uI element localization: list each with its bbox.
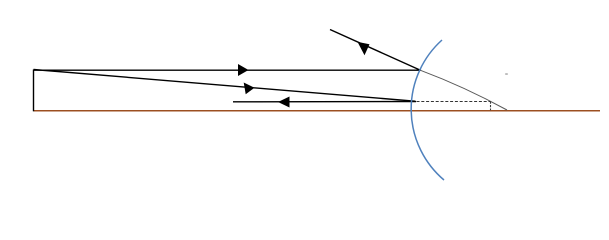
- object (vertical line): [33, 70, 35, 112]
- incident ray 2 (toward focal point): [34, 70, 416, 102]
- incident ray 1 (parallel ray): [34, 69, 421, 71]
- reflected ray 2 (parallel, leftward): [233, 101, 416, 103]
- optical axis: [34, 110, 601, 112]
- arrowhead on incident ray 2: [244, 83, 255, 95]
- virtual image (dashed vertical tick): [490, 102, 492, 111]
- normal / backward extension of reflected ray 1: [421, 70, 508, 110]
- arrowhead on incident ray 1: [238, 64, 249, 76]
- arrowhead on reflected ray 1: [358, 42, 370, 55]
- reflected ray 1 (diverging, up-left): [330, 30, 421, 71]
- stray faint mark: [505, 73, 508, 75]
- arrowhead on reflected ray 2: [278, 97, 290, 108]
- mirror arc (convex mirror): [411, 40, 444, 180]
- dashed extension of reflected ray 2 behind mirror: [417, 101, 491, 103]
